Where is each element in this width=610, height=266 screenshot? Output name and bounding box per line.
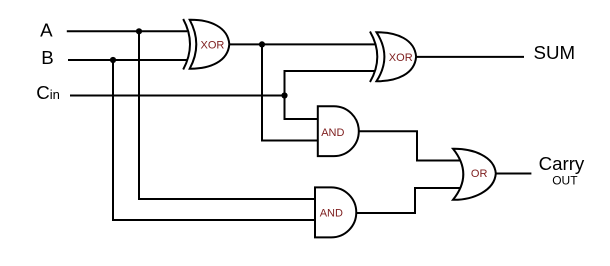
wire XOR1 output branch to AND1 lower input: [262, 44, 319, 140]
wire A branch to AND2 upper input: [139, 31, 316, 199]
svg-text:XOR: XOR: [389, 52, 413, 64]
svg-text:A: A: [40, 20, 53, 41]
svg-text:AND: AND: [321, 127, 344, 139]
wire A input: [67, 30, 188, 32]
svg-text:Carry: Carry: [539, 153, 585, 174]
XOR gate U1 body: [190, 20, 230, 69]
wire B branch to AND2 lower input: [113, 60, 316, 220]
wire Cin branch to XOR2 lower input: [285, 71, 376, 96]
svg-text:Cin: Cin: [36, 82, 60, 103]
OR gate U5 body: [453, 149, 496, 200]
AND gate U3 body: [318, 106, 359, 156]
svg-text:OUT: OUT: [552, 174, 578, 188]
svg-text:XOR: XOR: [201, 40, 225, 52]
wire Carry output: [495, 173, 531, 175]
junction dot on A line: [136, 28, 142, 34]
wire SUM output: [416, 56, 524, 58]
wire AND1 output to OR upper input: [358, 131, 461, 160]
AND gate U4 body: [315, 187, 356, 237]
junction dot on XOR1 output: [259, 41, 265, 47]
svg-text:B: B: [41, 47, 53, 68]
XOR gate U1 input arc: [183, 19, 190, 70]
svg-text:AND: AND: [320, 208, 343, 220]
junction dot on B line: [110, 57, 116, 63]
wire Cin input: [70, 95, 285, 97]
XOR gate U2 input arc: [370, 32, 377, 83]
junction dot on Cin line: [281, 92, 287, 98]
wire XOR1 output to XOR2 upper input: [229, 43, 376, 45]
wire B input: [68, 59, 187, 61]
svg-text:SUM: SUM: [534, 42, 576, 63]
wire AND2 output to OR lower input: [355, 188, 461, 213]
svg-text:OR: OR: [471, 168, 488, 180]
wire Cin branch to AND1 upper input: [285, 96, 320, 120]
XOR gate U2 body: [377, 32, 417, 81]
